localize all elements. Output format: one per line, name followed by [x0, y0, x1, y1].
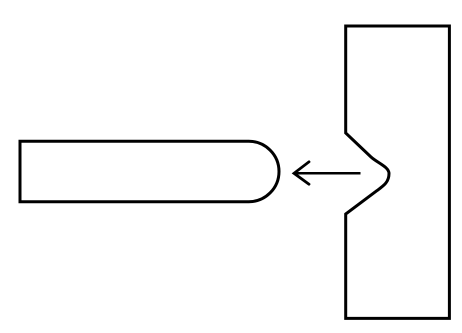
- arrow shaft: [294, 172, 361, 175]
- plate with notch: [346, 26, 450, 318]
- rod with rounded nose: [20, 141, 279, 201]
- arrowhead: [294, 162, 309, 184]
